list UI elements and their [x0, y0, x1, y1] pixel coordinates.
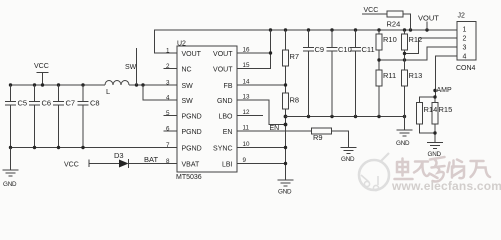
- svg-text:1: 1: [463, 27, 467, 34]
- svg-text:VOUT: VOUT: [213, 66, 233, 73]
- svg-text:U2: U2: [177, 41, 186, 48]
- svg-text:www.elecfans.com: www.elecfans.com: [391, 179, 501, 193]
- wire: R9 to ground: [332, 131, 349, 148]
- node dot pin16 junction: [269, 51, 272, 54]
- VCC symbol (top-right): [362, 7, 387, 14]
- svg-text:5: 5: [166, 110, 170, 117]
- svg-text:D3: D3: [114, 151, 124, 160]
- resistor R12: [402, 30, 423, 70]
- svg-text:R14: R14: [424, 105, 438, 114]
- svg-text:13: 13: [243, 94, 251, 101]
- svg-text:SYNC: SYNC: [213, 145, 232, 152]
- svg-text:MT5036: MT5036: [176, 174, 202, 181]
- wire: divider mid to connector pin 3: [379, 47, 457, 60]
- wire: input top rail: [11, 84, 106, 86]
- svg-text:GND: GND: [3, 181, 17, 188]
- svg-text:LBI: LBI: [222, 161, 233, 168]
- wire: R12 bottom to connector pin 2: [405, 38, 458, 54]
- resistor R8: [283, 93, 300, 180]
- svg-text:VCC: VCC: [364, 7, 379, 14]
- svg-text:R15: R15: [439, 105, 453, 114]
- svg-text:4: 4: [463, 54, 467, 61]
- capacitor C10: [327, 30, 352, 117]
- ground (below IC right): [278, 180, 294, 196]
- capacitor C5: [5, 85, 27, 148]
- svg-text:NC: NC: [182, 66, 192, 73]
- net label VOUT: [418, 14, 439, 31]
- pin 2 stub: [164, 68, 178, 70]
- capacitor C6: [29, 85, 51, 148]
- node dots on ground rail: [9, 146, 85, 149]
- watermark text 电子发烧友: [395, 157, 491, 182]
- svg-text:R7: R7: [290, 52, 300, 61]
- svg-text:C9: C9: [315, 45, 325, 54]
- svg-text:LBO: LBO: [218, 113, 233, 120]
- pin names left column: [182, 51, 202, 169]
- wire: inductor to SW pin 3: [129, 84, 177, 86]
- svg-text:EN: EN: [270, 125, 280, 132]
- resistor R24: [387, 11, 404, 29]
- watermark logo circle: [359, 153, 389, 191]
- svg-text:R11: R11: [383, 71, 396, 80]
- svg-text:11: 11: [243, 125, 250, 132]
- node dots on input rail: [9, 83, 85, 86]
- wire: R24 to VOUT rail: [403, 14, 411, 30]
- op-amp U2 MT5036 IC body: [177, 46, 237, 172]
- svg-text:3: 3: [166, 80, 170, 87]
- resistor R15 (inline): [424, 97, 453, 143]
- svg-text:FB: FB: [224, 83, 233, 90]
- ground (left): [3, 148, 19, 189]
- svg-text:AMP: AMP: [437, 87, 453, 94]
- net label SW: [125, 48, 137, 85]
- wire: pin 4 AMP branch: [435, 56, 457, 97]
- wire: pin 11 EN to R9: [237, 130, 312, 132]
- svg-text:SW: SW: [182, 98, 194, 105]
- diode D3: [114, 151, 177, 168]
- pin 8 stub (BAT): [129, 163, 178, 165]
- svg-text:PGND: PGND: [182, 145, 202, 152]
- ground (AMP): [427, 143, 443, 159]
- svg-text:R10: R10: [383, 35, 397, 44]
- node dot GND join: [284, 123, 288, 127]
- svg-text:14: 14: [243, 79, 251, 86]
- svg-text:J2: J2: [458, 13, 466, 20]
- capacitor C7: [53, 85, 75, 148]
- wire: output ground rail: [286, 116, 405, 118]
- svg-text:R9: R9: [313, 133, 323, 142]
- svg-text:SW: SW: [125, 64, 137, 71]
- pin 5 stub: [164, 115, 178, 117]
- VCC symbol (bottom-left): [64, 160, 119, 169]
- resistor R10: [376, 30, 397, 70]
- resistor R14 (parallel branch): [417, 97, 436, 133]
- svg-text:4: 4: [166, 95, 170, 102]
- wire: pin 15 VOUT joins: [237, 53, 271, 69]
- svg-text:R12: R12: [409, 35, 423, 44]
- capacitor C8: [78, 85, 100, 148]
- node FB junction: [284, 83, 287, 86]
- svg-text:BAT: BAT: [144, 155, 158, 164]
- pin 6 stub: [164, 130, 178, 132]
- node SW junction dots: [135, 83, 145, 86]
- svg-text:2: 2: [463, 36, 467, 43]
- svg-text:VOUT: VOUT: [418, 14, 439, 23]
- svg-text:9: 9: [243, 157, 247, 164]
- capacitor C9: [303, 30, 324, 117]
- svg-text:2: 2: [166, 63, 170, 70]
- node dot ground rail branch: [284, 115, 288, 119]
- svg-text:16: 16: [243, 47, 251, 54]
- wire: pin 16 VOUT to rail: [237, 30, 271, 53]
- wire: SW node to pin 4: [143, 85, 177, 100]
- connector J2 CON4: [456, 13, 476, 73]
- inductor L: [105, 81, 129, 97]
- resistor R7: [283, 30, 300, 93]
- wire: VOUT top rail (pin1 over IC to connector pin1): [155, 30, 458, 53]
- resistor R11: [376, 70, 396, 117]
- node dots on ground rail: [307, 115, 406, 118]
- svg-text:VBAT: VBAT: [182, 161, 200, 168]
- svg-text:CON4: CON4: [456, 65, 476, 72]
- svg-text:C5: C5: [18, 99, 28, 108]
- wire: pin 10 SYNC to ground column: [237, 147, 286, 149]
- svg-text:R24: R24: [387, 20, 401, 29]
- svg-text:3: 3: [463, 45, 467, 52]
- svg-text:R8: R8: [290, 96, 300, 105]
- svg-text:8: 8: [166, 158, 170, 165]
- svg-text:GND: GND: [428, 151, 442, 158]
- svg-text:GND: GND: [217, 98, 233, 105]
- svg-text:15: 15: [243, 62, 251, 69]
- wire: ground rail to pin 7: [11, 147, 178, 149]
- svg-text:GND: GND: [278, 189, 292, 196]
- svg-text:C10: C10: [338, 45, 352, 54]
- svg-text:GND: GND: [396, 140, 410, 147]
- pin number labels right: [243, 47, 251, 165]
- svg-text:VOUT: VOUT: [182, 51, 202, 58]
- svg-text:10: 10: [243, 141, 251, 148]
- pin names right column: [213, 51, 233, 169]
- svg-text:C7: C7: [66, 99, 76, 108]
- svg-text:R13: R13: [409, 71, 423, 80]
- svg-text:VOUT: VOUT: [213, 51, 233, 58]
- svg-text:EN: EN: [223, 129, 233, 136]
- resistor R9: [312, 128, 332, 142]
- svg-text:PGND: PGND: [182, 129, 202, 136]
- svg-text:12: 12: [243, 109, 251, 116]
- svg-text:7: 7: [166, 142, 170, 149]
- node dots on VOUT rail: [269, 28, 429, 31]
- pin number labels left: [166, 48, 170, 166]
- svg-text:C6: C6: [42, 99, 52, 108]
- svg-text:C8: C8: [90, 99, 100, 108]
- ground (output rail): [396, 117, 413, 148]
- pin 1 stub: [155, 52, 178, 54]
- pin 12 LBO stub: [237, 115, 263, 117]
- svg-text:PGND: PGND: [182, 113, 202, 120]
- svg-text:GND: GND: [341, 156, 355, 163]
- VCC symbol (top-left): [34, 63, 49, 85]
- svg-text:VCC: VCC: [34, 63, 49, 70]
- wire: pin 13 GND to ground column: [237, 100, 286, 125]
- svg-text:VCC: VCC: [64, 162, 79, 169]
- ground (R9): [341, 148, 357, 164]
- capacitor C11: [350, 30, 375, 117]
- svg-text:L: L: [106, 87, 110, 96]
- wire: pin 9 LBI to ground column: [237, 163, 286, 165]
- wire: FB pin 14 to divider: [237, 84, 286, 86]
- svg-text:SW: SW: [182, 83, 194, 90]
- resistor R13: [402, 70, 423, 117]
- svg-text:6: 6: [166, 126, 170, 133]
- svg-text:C11: C11: [362, 45, 375, 54]
